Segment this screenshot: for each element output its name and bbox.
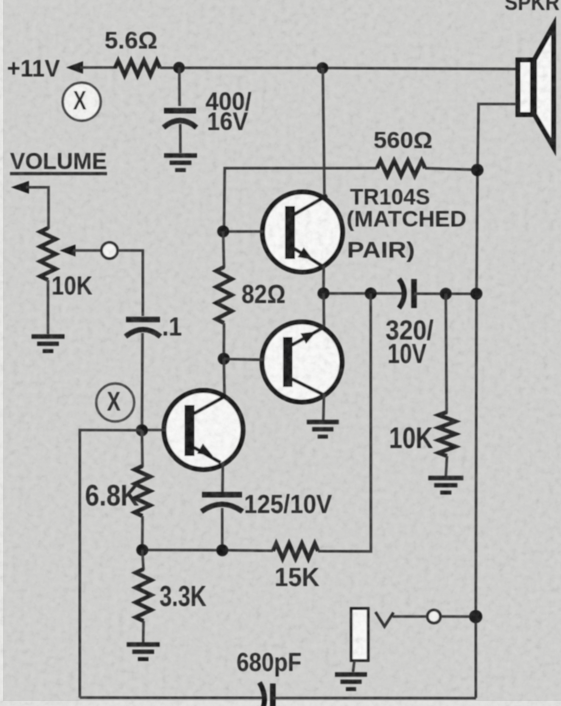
arrow pot wiper	[60, 245, 76, 257]
wire Q1 emitter	[322, 266, 325, 294]
node output rail junction	[470, 288, 482, 300]
wire C1 bottom lead	[179, 124, 182, 153]
wire 82ohm bottom lead	[223, 323, 226, 359]
node 82ohm / Q2 base / Q3 collector junction	[218, 353, 230, 365]
ground 10K right	[428, 476, 463, 481]
wire Q1 collector from rail	[323, 68, 325, 200]
ground volume pot	[32, 334, 65, 339]
wire Q3 collector to junction	[223, 359, 226, 397]
wire left input rail	[80, 430, 142, 698]
wire Q1 base	[224, 230, 264, 233]
wire top rail to speaker	[160, 68, 516, 69]
wire +11V rail left	[80, 66, 116, 69]
capacitor C3 320/10V	[399, 279, 404, 308]
wire C3 to output rail	[414, 292, 477, 295]
wire bottom rail left of C5	[80, 696, 262, 699]
wire Q1 base to 560ohm	[224, 168, 377, 233]
node open terminal on wiper	[102, 243, 118, 259]
node X marker lower	[96, 384, 134, 422]
node jack / output rail junction	[469, 610, 482, 623]
capacitor C5 680pF	[260, 683, 265, 706]
ground Q2 collector	[307, 420, 339, 425]
node C3 / 10K junction	[440, 288, 452, 300]
node X marker upper	[63, 83, 101, 121]
wire emitter rail to C3	[324, 292, 403, 295]
wire Q2 collector to ground	[322, 394, 325, 420]
transistor Q3	[164, 391, 243, 470]
wire 6.8K bottom lead	[141, 516, 144, 550]
wire Q3 emitter to C4	[221, 462, 224, 492]
wire 6.8K top lead	[141, 430, 144, 467]
resistor R 560ohm	[377, 161, 425, 176]
node supply/C1 junction	[173, 62, 185, 74]
ground C1	[164, 153, 197, 158]
wire 560ohm to output rail	[425, 168, 477, 170]
wire 10K top lead	[444, 294, 447, 413]
speaker SPKR driver	[518, 60, 533, 115]
resistor R 3.3K	[136, 569, 152, 621]
wire 82ohm top lead	[222, 231, 225, 268]
resistor R 5.6ohm	[115, 61, 160, 76]
wire bottom rail right of C5	[273, 697, 476, 700]
node C4 / rail junction	[216, 544, 228, 556]
wire bottom emitter rail	[142, 549, 273, 552]
wire jack sleeve to ground	[353, 660, 355, 672]
capacitor C1 400/16V	[164, 108, 196, 114]
node supply/Q1 collector junction	[317, 62, 329, 74]
wire jack to output rail	[440, 615, 471, 618]
wire wiper to C2	[118, 251, 143, 317]
potentiometer R 10K volume	[40, 228, 56, 280]
wire speaker lower terminal	[478, 104, 516, 123]
wire 3.3K bottom lead	[142, 621, 145, 643]
ground jack	[335, 672, 367, 677]
node 15K feedback junction	[365, 288, 377, 300]
wire 10K bottom lead	[446, 456, 447, 477]
wire Q2 emitter from rail	[322, 293, 325, 330]
arrow input to volume pot	[11, 181, 29, 194]
arrow +11V supply	[66, 61, 83, 73]
wire 3.3K top lead	[142, 550, 143, 570]
node Q1 base / 82ohm junction	[217, 225, 229, 237]
node 560ohm/output junction	[471, 164, 483, 176]
resistor R 82ohm	[216, 267, 232, 323]
capacitor C2 .1	[126, 317, 160, 323]
transistor Q1 TR104S	[263, 192, 343, 272]
ground 3.3K	[127, 642, 160, 647]
jack J1 sleeve	[351, 609, 368, 661]
capacitor C4 125/10V	[202, 492, 242, 498]
wire right output rail	[476, 120, 479, 698]
transistor Q2 TR104S pair	[262, 322, 342, 402]
wire C2 to Q3 base node	[141, 333, 144, 430]
wire C4 bottom lead	[221, 508, 224, 550]
resistor R 6.8K	[135, 466, 151, 516]
wire Q3 base	[142, 429, 166, 432]
node Q3 base / C2 / 6.8K junction	[136, 424, 148, 436]
wire Q2 base	[224, 358, 264, 361]
wire pot bottom lead	[47, 280, 50, 334]
wire C1 top lead	[178, 68, 181, 107]
node Q1 emitter / Q2 emitter junction	[318, 287, 330, 299]
jack J1 tip contact	[376, 612, 394, 627]
node 6.8K / 3.3K junction	[136, 544, 148, 556]
node jack open terminal	[427, 610, 440, 623]
resistor R 10K right	[439, 412, 456, 456]
resistor R 15K	[273, 544, 318, 559]
wire 15K to feedback junction	[318, 294, 371, 552]
